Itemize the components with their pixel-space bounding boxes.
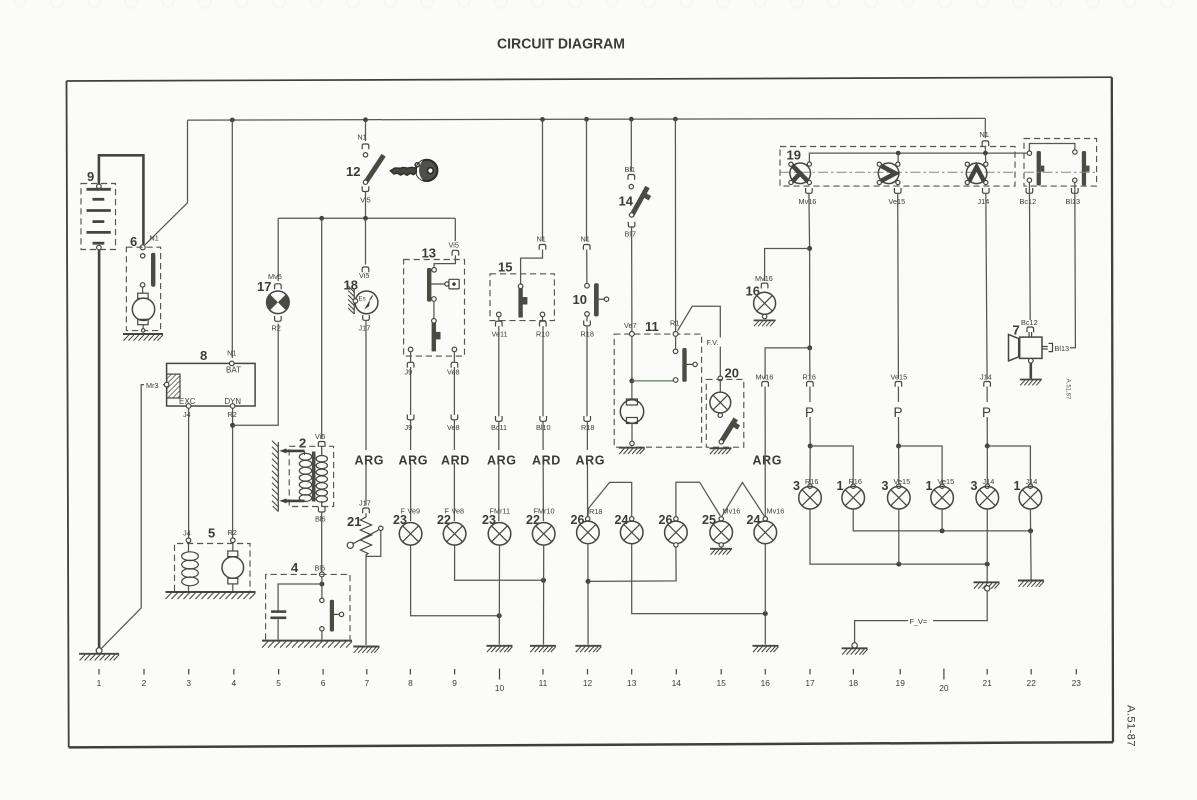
junction x588 [586,579,591,584]
svg-text:Bl6: Bl6 [315,515,326,524]
battery 9 [81,169,116,250]
svg-text:ARD: ARD [441,454,470,468]
svg-text:Bl13: Bl13 [1055,344,1070,353]
svg-text:10: 10 [573,292,587,307]
svg-text:N1: N1 [150,234,159,243]
svg-text:Ve11: Ve11 [492,330,508,339]
svg-text:Mv16: Mv16 [756,373,774,382]
junction x499 [497,613,502,618]
wire R18 column [586,316,589,517]
lamp 24 Mv16 [747,507,785,544]
tick marks terminal row [99,669,1076,680]
wire x365 to gauge 18 [365,218,367,264]
svg-text:J4: J4 [183,529,191,538]
label P [804,402,817,417]
svg-text:13: 13 [627,678,637,688]
svg-text:P: P [982,405,991,420]
lamp 25 Mv16 [702,507,740,544]
svg-text:N1: N1 [357,133,366,142]
wire R2 to lamp 17 [233,324,279,426]
lamp 1 J14 [1014,477,1042,509]
svg-text:R2: R2 [228,528,237,537]
switch 10 [573,235,609,317]
svg-text:Mr3: Mr3 [146,381,159,390]
svg-text:26: 26 [571,513,585,527]
svg-text:6: 6 [130,234,137,249]
svg-text:19: 19 [896,678,906,688]
ground x588 [575,646,601,652]
svg-text:2: 2 [142,678,147,688]
wire 1J14 down to ground [1029,509,1032,580]
wire 3R16 down and across [810,509,987,564]
svg-text:15: 15 [498,260,512,275]
svg-text:7: 7 [1013,323,1020,338]
wire resistor to ground [365,556,367,645]
junction x765 [763,611,768,616]
svg-text:Ve15: Ve15 [894,477,911,486]
wire lamp23 to x499 [411,545,500,616]
svg-text:R18: R18 [581,423,594,432]
svg-text:F.V.: F.V. [707,338,719,347]
svg-text:Ve9: Ve9 [408,507,421,516]
regulator 8 [164,348,255,419]
wire to lamp 3Ve15 [898,446,900,486]
ground x499 [486,646,512,652]
svg-text:N1: N1 [227,349,236,358]
svg-text:8: 8 [408,678,413,688]
flasher unit 13 [404,246,465,357]
svg-text:5: 5 [276,678,281,688]
svg-text:R2: R2 [272,324,281,333]
wire branch to lamp 1Ve15 [899,446,943,486]
wire DYN R2 down [232,408,234,538]
wire lamp24 bottom to x765 [632,544,766,614]
lamp 23 FVe9 [393,507,422,546]
svg-text:E: E [179,397,184,406]
svg-text:12: 12 [346,164,360,179]
svg-text:F: F [445,507,450,516]
svg-text:F_V=: F_V= [910,617,928,626]
wire lamp22 FMr10 to ground [543,545,545,644]
ground x543 [530,646,556,652]
svg-text:26: 26 [659,513,673,527]
wire branch to lamp 1J14 [987,446,1030,486]
svg-text:18: 18 [344,278,358,293]
svg-text:Ve8: Ve8 [452,507,465,516]
wire bus corner to flasher 13 Vi5 [454,218,456,241]
label F.V. bottom [908,617,933,626]
wire J9 column [410,352,412,521]
wire EXC J4 to dynamo coil [188,408,190,538]
junction bus x232 [230,118,235,123]
svg-text:J9: J9 [405,423,413,432]
label P [893,402,906,417]
svg-text:12: 12 [583,678,593,688]
junction bus x586 [584,117,589,122]
fuel gauge 18 [344,267,378,333]
svg-text:Bl1: Bl1 [625,165,636,174]
svg-text:FMr11: FMr11 [490,507,511,516]
wire J14 column from 19 [986,193,987,379]
label P [981,402,994,417]
svg-text:J14: J14 [978,197,990,206]
svg-text:18: 18 [849,678,859,688]
svg-text:CIRCUIT DIAGRAM: CIRCUIT DIAGRAM [497,37,625,53]
junction bus x631 [629,117,634,122]
relay 15 [490,235,554,321]
svg-text:7: 7 [364,678,369,688]
svg-text:FMr10: FMr10 [534,507,555,516]
ground x853 [852,643,857,648]
lamp 26 R18 [571,507,603,544]
svg-text:Bl13: Bl13 [1066,197,1081,206]
svg-text:J14: J14 [980,373,992,382]
svg-text:R16: R16 [803,373,816,382]
lamp 16 [746,274,776,326]
svg-text:5: 5 [208,526,215,541]
svg-text:R18: R18 [589,507,602,516]
junction P J14 [985,444,990,449]
wire lamp23 FMr11 to ground [498,545,500,644]
svg-text:Bc12: Bc12 [1021,318,1038,327]
junction x942 [940,528,945,533]
lamp 3 Ve15 [882,477,911,509]
wiper motor 11 [614,319,701,455]
lamp 1 Ve15 [926,477,955,509]
junction bus x542 [540,117,545,122]
wire battery positive cable (thick) to starter N1 [99,155,143,244]
wire Bl7 to wiper 11 Ve7 [631,227,633,332]
wire link lamp25 to lamp24b [722,482,765,516]
wire bus to dip switch 14 [630,119,632,171]
label Mr3 [144,381,163,389]
svg-text:3: 3 [882,479,889,493]
svg-text:13: 13 [422,246,436,261]
svg-text:3: 3 [793,479,800,493]
rotary contact Ve15 [877,162,900,185]
svg-text:ARG: ARG [487,454,517,468]
svg-text:17: 17 [805,678,815,688]
lamp 3 J14 [971,477,999,509]
wire 3J14 down to chassis [986,509,988,582]
svg-text:16: 16 [761,678,771,688]
ground battery [96,648,102,654]
svg-text:P: P [805,405,814,420]
wire gauge to resistor 21 [365,320,367,505]
svg-text:J17: J17 [359,499,371,508]
light switch 19 [780,147,1027,187]
wire Ve15 column from 19 [897,193,900,379]
wire F.V. return [855,591,988,643]
R16 feed column [809,348,811,379]
wire bus to R1 [674,119,676,331]
svg-text:Mv16: Mv16 [799,197,817,206]
svg-text:1: 1 [837,479,844,493]
ground x1031 elevated [1018,581,1044,587]
svg-text:20: 20 [939,683,949,693]
junction DYN R2 [230,423,235,428]
connector J14 under 19 [983,188,990,193]
svg-text:J4: J4 [183,410,191,419]
svg-text:Ve8: Ve8 [447,368,460,377]
connector Ve15 under 19 [894,188,901,193]
junction x365 [363,216,368,221]
svg-text:8: 8 [200,348,207,363]
wire bus to ignition switch 12 [365,120,367,141]
junction P Ve15 [896,444,901,449]
connector Bl13 under stop switch [1072,188,1079,193]
ignition switch 12 [346,153,386,205]
wire Mv16 column from 19 [808,193,811,248]
svg-text:Mv16: Mv16 [767,507,785,516]
wire branch to lamp 1R16 [810,446,853,486]
dynamo 5 [166,526,256,600]
svg-text:Ve7: Ve7 [624,321,637,330]
wire Mv16 drop to lamp 24b [765,348,810,379]
svg-text:15: 15 [717,678,727,688]
svg-text:14: 14 [672,678,682,688]
svg-text:R10: R10 [536,330,549,339]
lamp 23 FMr11 [482,507,511,546]
svg-text:ARD: ARD [532,454,561,468]
labels ARG ARD row [355,450,381,463]
svg-text:3: 3 [186,678,191,688]
svg-text:17: 17 [257,279,271,294]
svg-text:ARG: ARG [399,454,429,468]
wire battery negative cable (thick) to ground [98,250,101,648]
svg-text:F: F [401,507,406,516]
wire ignition to distribution bus [365,192,367,219]
svg-text:ARG: ARG [753,454,783,468]
svg-text:R18: R18 [581,330,594,339]
svg-text:10: 10 [495,683,505,693]
svg-text:22: 22 [1027,678,1037,688]
wire to lamp 3J14 [986,446,988,486]
svg-text:Bl: Bl [625,230,632,239]
wire Ve8 column [453,352,455,521]
svg-text:A.51-87: A.51-87 [1125,705,1137,747]
wire R10-Bl10 column [542,317,545,521]
wire lamp26 R18 to ground x588 [587,544,589,645]
svg-text:ARG: ARG [355,454,385,468]
lamp 1 R16 [837,477,865,509]
scan artifact arcs top edge [14,0,1173,8]
wire Bc12 to horn [1028,182,1031,320]
dip switch 14 [619,165,652,239]
svg-text:11: 11 [645,319,659,334]
starter motor 6 [123,234,163,341]
svg-text:Vi5: Vi5 [315,432,325,441]
ground x765 [753,646,779,652]
svg-text:9: 9 [87,169,94,184]
svg-text:7: 7 [632,230,636,239]
wire to lamp 16 [765,249,810,282]
svg-text:Ve15: Ve15 [889,197,906,206]
svg-text:1: 1 [97,678,102,688]
junction x543 [541,578,546,583]
svg-text:2: 2 [299,436,306,451]
svg-text:4: 4 [231,678,236,688]
wire coil Bl6 to condenser 4 [321,512,323,573]
wire Bl13 from stop switch to horn [1070,182,1075,347]
wire bus to regulator N1 [231,120,233,358]
svg-text:Bc11: Bc11 [491,423,507,432]
svg-text:ARG: ARG [576,454,606,468]
wire 3Ve15 down [898,509,900,564]
wire lamp24b to ground x765 [764,544,766,645]
wire link lamp24 to lamp26 [588,482,632,516]
wire bus corner down to lamp 17 [277,218,279,281]
svg-text:Vi5: Vi5 [449,241,459,250]
wire bus corner to 19 N1 [984,118,986,138]
svg-text:23: 23 [1072,678,1082,688]
svg-text:4: 4 [291,560,299,575]
lamp 25 ground [719,543,723,547]
svg-text:N1: N1 [980,130,989,139]
svg-text:14: 14 [619,194,634,209]
svg-text:24: 24 [615,513,629,527]
junction x809 y348 [807,345,812,350]
wire x321 down to coil 2 [321,218,323,439]
junction x321 [319,216,324,221]
svg-text:Bl6: Bl6 [315,564,326,573]
wire 1Ve15 down [941,509,943,531]
resistor 21 [347,499,383,557]
wire 1R16 1Ve15 1J14 common [853,509,1030,531]
svg-text:Ve8: Ve8 [447,423,460,432]
wire Ve11-Bc11 column [498,317,500,521]
lamp 3 R16 [793,477,821,509]
wire bus corner to starter N1 [145,120,188,245]
wire lamp26b bottom [674,543,678,547]
svg-text:Bc12: Bc12 [1020,197,1037,206]
label F.V. [705,338,728,347]
svg-text:BAT: BAT [226,366,241,375]
svg-text:Bl10: Bl10 [536,423,551,432]
wire to lamp 3R16 [809,446,811,486]
wire lamp22 to x543 [455,545,544,580]
tick numbers [97,678,1082,693]
wire R1 to F.V. column [678,306,721,376]
key icon [390,160,437,181]
wire Mr3 from regulator to battery ground [101,385,165,650]
junction x987 y564 [985,562,990,567]
junction x809 y248 [807,246,812,251]
svg-text:3: 3 [971,479,978,493]
connector Mv16 under 19 [806,188,813,193]
svg-text:J17: J17 [359,324,371,333]
wire top bus N1 [188,118,986,120]
junction x899 y564 [896,562,901,567]
junction bus x675 [673,117,678,122]
junction x1030 [1028,528,1033,533]
drawing border frame [67,77,1114,747]
lamp 26 second [659,513,688,544]
condenser unit 4 [262,560,352,648]
svg-text:21: 21 [347,514,361,529]
lamp 22 FVe8 [437,507,466,546]
svg-text:R1: R1 [670,319,679,328]
ignition coil 2 [272,432,334,524]
svg-text:Vi5: Vi5 [359,271,369,280]
svg-text:6: 6 [321,678,326,688]
svg-text:11: 11 [539,678,548,688]
wire bus to relay 15 N1 [542,119,544,241]
ground x366 [353,647,379,653]
lamp 22 FMr10 [526,507,555,546]
svg-text:9: 9 [452,678,457,688]
svg-text:21: 21 [983,678,993,688]
svg-text:1: 1 [1014,479,1021,493]
svg-text:J9: J9 [405,368,413,377]
wire distribution bus Vi5 [278,217,455,219]
rotary contact J14 [965,162,988,185]
svg-text:Ve15: Ve15 [891,373,908,382]
junction bus x365 [363,117,368,122]
svg-text:A.51.87: A.51.87 [1065,379,1071,400]
map lamp 20 [706,366,744,455]
svg-text:1: 1 [926,479,933,493]
svg-text:20: 20 [725,366,739,381]
stop switch box right [1024,139,1097,187]
wire link lamp26b to lamp25 [676,482,721,516]
horn 7 [1009,318,1070,385]
warning lamp 17 [257,272,289,333]
svg-text:P: P [894,405,903,420]
svg-text:Es: Es [359,296,366,303]
svg-text:Mv16: Mv16 [755,274,773,283]
rotary contact Mv16 [789,162,812,185]
connector Bc12 under stop switch [1026,188,1033,193]
wire Mv16 column continues [809,249,811,348]
svg-text:N1: N1 [537,235,546,244]
svg-text:N1: N1 [581,235,590,244]
lamp 24 [615,513,644,544]
ground x987 elevated with stud [974,582,1000,588]
svg-text:19: 19 [787,148,801,163]
wire bus to switch 10 N1 [586,119,588,241]
junction P R16 [808,444,813,449]
